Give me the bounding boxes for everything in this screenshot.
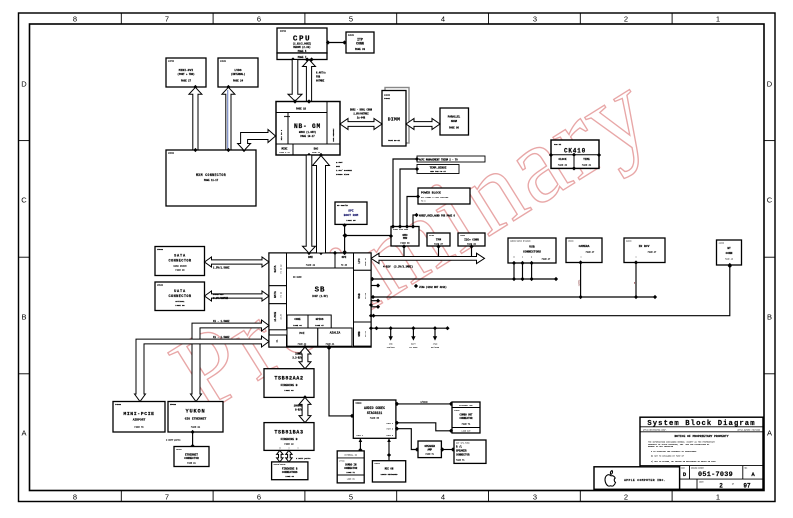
wire CPU to ITP CONN: [326, 40, 347, 44]
svg-text:4: 4: [441, 493, 445, 502]
svg-text:MIC ON: MIC ON: [385, 468, 394, 471]
svg-text:J8500: J8500: [168, 152, 175, 155]
svg-text:PAGE 30: PAGE 30: [175, 269, 185, 272]
svg-text:A4101: A4101: [348, 34, 355, 37]
svg-text:CLOCK: CLOCK: [558, 158, 566, 161]
svg-text:J5000: J5000: [157, 248, 164, 251]
svg-text:I2C+ CONN: I2C+ CONN: [464, 239, 479, 242]
svg-text:DMI: DMI: [308, 256, 313, 259]
stub SMB device 2: [409, 326, 418, 349]
bus arrow NB FSB up to CPU: [303, 60, 327, 102]
svg-text:1.5V/1.5GHZ: 1.5V/1.5GHZ: [213, 266, 230, 269]
svg-text:MXM CONNECTOR: MXM CONNECTOR: [196, 173, 226, 177]
svg-text:PG 35: PG 35: [341, 264, 348, 267]
svg-text:SPI: SPI: [342, 256, 347, 259]
svg-text:J4101: J4101: [220, 60, 227, 63]
svg-text:PAGE 71: PAGE 71: [346, 471, 355, 474]
svg-text:1.5V/ 333MHZ: 1.5V/ 333MHZ: [336, 169, 352, 172]
svg-text:8-B2V: 8-B2V: [295, 409, 303, 412]
svg-text:PAGE 44: PAGE 44: [285, 475, 294, 478]
svg-text:A TO ACCEPTED THE CONTRACT OF: A TO ACCEPTED THE CONTRACT OF CONDITIONS: [651, 450, 697, 453]
svg-text:PAGE 9 10: PAGE 9 10: [279, 151, 290, 154]
svg-text:LVDS: LVDS: [234, 69, 241, 72]
svg-text:4-B2V (3.3V/3.3MHZ): 4-B2V (3.3V/3.3MHZ): [383, 266, 414, 269]
svg-text:SMB: SMB: [358, 331, 361, 336]
svg-text:B: B: [21, 313, 26, 322]
wire YUKON to ETHERNET CONNECTOR: [166, 432, 195, 448]
block FIREWIRE B CONNECTORS: [272, 462, 308, 480]
svg-text:PAGE 55: PAGE 55: [370, 417, 380, 420]
wire AUDIO CODEC to EXTERNAL AMP: [395, 401, 453, 406]
block SMC U4900: [389, 224, 419, 246]
block ETHERNET CONNECTOR J5400: [174, 447, 209, 467]
svg-text:POWER BLOCK: POWER BLOCK: [421, 192, 441, 195]
svg-text:CONNECTOR: CONNECTOR: [168, 295, 191, 299]
svg-text:PAGE 27: PAGE 27: [181, 80, 192, 83]
wire SB AZALIA to AUDIO CODEC: [327, 346, 354, 418]
svg-text:J4900: J4900: [719, 241, 724, 244]
svg-text:1.8V/667MHZ: 1.8V/667MHZ: [353, 113, 369, 116]
svg-text:APPLE_RESTRICTED_CONF.: APPLE_RESTRICTED_CONF.: [643, 429, 667, 432]
svg-text:5: 5: [349, 15, 353, 24]
block MXM CONNECTOR J8500: [166, 148, 256, 206]
bus arrow SB up to NB DAC: [313, 156, 353, 254]
svg-text:A: A: [767, 429, 772, 438]
stub SMB device 1: [387, 326, 396, 349]
svg-text:AUDIO CODEC: AUDIO CODEC: [364, 406, 385, 410]
svg-text:A9000: A9000: [374, 462, 379, 465]
block SATA CONNECTOR J5000: [155, 247, 205, 276]
svg-text:J4700: J4700: [168, 60, 175, 63]
svg-text:J8300: J8300: [568, 240, 573, 242]
svg-text:C: C: [21, 196, 27, 205]
bus arrow UATA to SB: [205, 291, 270, 301]
svg-text:TPM: TPM: [436, 239, 441, 242]
svg-text:OF: OF: [732, 484, 734, 486]
svg-text:SPI: SPI: [348, 210, 354, 213]
svg-text:x1-PCIE: x1-PCIE: [274, 311, 277, 321]
block LVDS connector J4101: [218, 58, 258, 89]
svg-text:PAGE 42: PAGE 42: [306, 264, 316, 267]
svg-text:STAC9221: STAC9221: [367, 411, 382, 415]
svg-text:B) NOT TO DIVULGED BY PART OF: B) NOT TO DIVULGED BY PART OF: [651, 455, 685, 458]
svg-text:R /L: R /L: [456, 445, 463, 448]
svg-text:BT: BT: [727, 247, 731, 250]
wire SMB bus from SB: [371, 326, 450, 330]
wire AUDIO PORT A to COMBO OUT: [395, 421, 453, 433]
block DIMM J4000: [382, 88, 409, 147]
svg-text:GMCH (1.05V): GMCH (1.05V): [299, 131, 317, 134]
svg-text:LINE IN: LINE IN: [347, 478, 356, 481]
svg-text:AZALIA: AZALIA: [330, 331, 341, 334]
block ITP CONN A4101: [346, 32, 374, 53]
bus arrow SB PCIE x1 to MINI-PCIE: [135, 336, 270, 402]
svg-text:PAGE 71: PAGE 71: [462, 423, 471, 426]
bus arrows TSB81BA3 to FIREWIRE connectors: [277, 450, 312, 462]
svg-text:MEROM (2.33): MEROM (2.33): [293, 46, 311, 49]
svg-text:A2/4200: A2/4200: [431, 346, 440, 349]
svg-text:PAGE 47: PAGE 47: [542, 258, 551, 261]
wire SMC to LPC bus: [402, 244, 406, 260]
svg-text:DDR MEMORY: DDR MEMORY: [332, 128, 335, 142]
svg-text:CONNECTOR: CONNECTOR: [344, 467, 357, 470]
svg-text:1: 1: [716, 493, 720, 502]
block NB-GM northbridge U5000: [276, 99, 340, 157]
svg-text:CONNECTOR: CONNECTOR: [456, 453, 470, 456]
svg-text:PORT C: PORT C: [357, 435, 364, 437]
bus arrow DIMM to PARALLEL SRAM: [406, 119, 440, 130]
svg-text:97: 97: [743, 483, 751, 490]
svg-text:USB: USB: [529, 246, 535, 249]
label JTAG net: [414, 284, 447, 289]
svg-text:2x-64B: 2x-64B: [357, 117, 366, 120]
block PARALLEL SRAM: [440, 108, 469, 135]
svg-text:PAGE 24: PAGE 24: [233, 80, 244, 83]
svg-text:SRAM: SRAM: [451, 120, 458, 123]
svg-text:(INTERNAL): (INTERNAL): [231, 73, 246, 76]
wire BT CONN to SB USB: [371, 264, 732, 318]
svg-text:J5400: J5400: [176, 448, 183, 451]
svg-text:LINE OUT: LINE OUT: [461, 430, 471, 433]
svg-text:(PORT + TBD): (PORT + TBD): [177, 73, 195, 76]
wire SPI BOOT ROM to SB SPI: [343, 223, 347, 254]
block CPU U4700: [277, 28, 327, 62]
svg-text:8: 8: [73, 15, 77, 24]
svg-text:SPEAKER: SPEAKER: [456, 449, 467, 452]
svg-text:051-7039: 051-7039: [698, 471, 733, 479]
svg-text:66MB/SEC: 66MB/SEC: [213, 293, 224, 296]
svg-text:SB: SB: [315, 287, 326, 295]
svg-text:CONNECTOR: CONNECTOR: [168, 260, 191, 264]
svg-text:FIREWIRE B: FIREWIRE B: [281, 384, 298, 387]
svg-text:TSB81BA3: TSB81BA3: [274, 429, 303, 435]
svg-text:6.4GT/s: 6.4GT/s: [316, 72, 326, 75]
svg-text:PAGE 5: PAGE 5: [298, 50, 307, 53]
svg-text:CONN: CONN: [726, 252, 733, 255]
bus arrow LPC from SB: [371, 253, 485, 268]
label box POWER BLOCK: [407, 188, 470, 227]
svg-text:400 Hz: 400 Hz: [554, 143, 562, 146]
svg-text:GPIOS: GPIOS: [316, 318, 324, 321]
svg-text:PG 30 x2: PG 30 x2: [280, 264, 283, 274]
wire AUDIO PORT D to MIC: [387, 438, 391, 460]
svg-text:U4750: U4750: [429, 234, 434, 237]
svg-text:DDR2 - DUAL CHAN: DDR2 - DUAL CHAN: [350, 109, 373, 112]
block TSB82AA2 firewire U2100: [264, 369, 314, 400]
svg-text:8: 8: [73, 493, 77, 502]
svg-text:DIMM: DIMM: [388, 116, 400, 122]
block MINI-PCIE AIRPORT J4500: [113, 402, 165, 433]
svg-text:6: 6: [257, 15, 261, 24]
svg-text:LOGIC KEYBOARD: LOGIC KEYBOARD: [381, 473, 399, 476]
wire USB bus 2 from SB: [371, 295, 657, 299]
svg-text:2: 2: [624, 15, 628, 24]
svg-text:APPLE COMPUTER INC.: APPLE COMPUTER INC.: [624, 479, 666, 482]
bus arrow CPU FSB down to NB: [288, 60, 302, 102]
label box ACPI MANAGEMENT THERM: [393, 156, 485, 227]
svg-text:AIRPORT: AIRPORT: [133, 419, 146, 422]
block TPM U4700: [427, 233, 450, 246]
wire IR RCV to USB bus: [634, 263, 638, 300]
svg-text:UATA: UATA: [174, 290, 186, 294]
svg-text:4: 4: [441, 15, 445, 24]
svg-text:PAGE 71: PAGE 71: [425, 453, 434, 456]
svg-text:AVREF,AVID,AGND FOR PAGE 6: AVREF,AVID,AGND FOR PAGE 6: [419, 214, 455, 217]
svg-text:3.3-B2V: 3.3-B2V: [292, 357, 302, 360]
svg-text:PAGE 44: PAGE 44: [293, 324, 302, 327]
svg-text:J7800: J7800: [454, 410, 459, 412]
svg-text:X1 - 1.5GHZ: X1 - 1.5GHZ: [213, 336, 230, 339]
svg-text:SATA: SATA: [174, 255, 186, 259]
wire SPEAKER AMP to SPEAKER CONNECTOR: [440, 447, 455, 451]
svg-text:D: D: [21, 80, 27, 89]
bus arrow SB to TSB82AA2: [292, 347, 311, 369]
block BT CONN: [717, 240, 742, 267]
svg-text:PAGE 31: PAGE 31: [582, 164, 592, 167]
svg-text:CONNECTOR: CONNECTOR: [460, 417, 473, 420]
wires USB CONNECTORS to USB bus: [512, 263, 534, 281]
svg-text:1: 1: [716, 15, 720, 24]
svg-text:PAGE 96: PAGE 96: [449, 127, 459, 130]
svg-text:REV.: REV.: [745, 467, 749, 469]
bus arrow NB to DIMM DDR2: [340, 109, 382, 130]
svg-text:7: 7: [165, 493, 169, 502]
svg-text:800MB/400MB: 800MB/400MB: [274, 463, 287, 466]
svg-text:PAGE 30: PAGE 30: [175, 304, 185, 307]
bus arrow NB DMI down to SB: [303, 155, 316, 253]
svg-text:x BUTT ports: x BUTT ports: [166, 439, 181, 442]
svg-text:PAGE 20-21: PAGE 20-21: [388, 139, 401, 142]
svg-text:PG 30: PG 30: [280, 291, 283, 298]
svg-text:3: 3: [533, 15, 537, 24]
svg-text:7: 7: [165, 15, 169, 24]
svg-text:33MHZ: 33MHZ: [295, 353, 303, 356]
svg-text:J7700: J7700: [339, 461, 344, 463]
svg-text:PARALLEL: PARALLEL: [448, 116, 461, 119]
wire AUDIO PORT B to SPEAKER AMP: [395, 427, 419, 452]
svg-text:CLK/DTA: CLK/DTA: [387, 346, 396, 349]
svg-text:PG 28: PG 28: [364, 292, 367, 299]
svg-text:GIG ETHERNET: GIG ETHERNET: [185, 418, 207, 421]
svg-text:PG 4300: PG 4300: [409, 346, 418, 349]
block MIC on keyboard: [372, 461, 405, 482]
svg-text:ACPI MANAGEMENT THERM 2 - TO: ACPI MANAGEMENT THERM 2 - TO: [419, 158, 458, 161]
apple logo box: [594, 467, 680, 490]
bus arrow SB PCIE x1 to YUKON: [191, 320, 270, 402]
svg-text:MINI-DVI: MINI-DVI: [179, 69, 194, 72]
stub SMB device 3: [431, 326, 440, 349]
svg-text:3: 3: [533, 493, 537, 502]
label box TEMP SENSE: [400, 165, 459, 227]
block UATA CONNECTOR J5100: [155, 282, 205, 311]
svg-text:2: 2: [719, 483, 723, 490]
svg-text:YUKON: YUKON: [186, 408, 206, 414]
svg-text:J4600: J4600: [115, 403, 122, 406]
svg-text:SHEET: SHEET: [699, 481, 704, 483]
svg-text:2: 2: [624, 493, 628, 502]
svg-text:ICH7 (1.5V): ICH7 (1.5V): [312, 295, 328, 298]
block USB CONNECTORS J4500: [508, 238, 556, 265]
svg-text:PAGE 46: PAGE 46: [725, 258, 734, 261]
svg-text:PAGE 21: PAGE 21: [187, 462, 196, 465]
svg-text:UATA: UATA: [274, 291, 277, 298]
svg-text:AND FAN PG 37: AND FAN PG 37: [430, 170, 446, 173]
svg-text:TIME: TIME: [583, 158, 590, 161]
svg-text:PAGE 18: PAGE 18: [296, 108, 306, 111]
svg-text:AMP: AMP: [427, 449, 432, 452]
svg-text:CONN: CONN: [356, 42, 364, 46]
stub pins SB USB right edge: [371, 283, 380, 309]
svg-text:U4700: U4700: [280, 30, 287, 33]
svg-text:PAGE 71: PAGE 71: [456, 458, 465, 461]
block AUDIO CODEC STAC9221 U6000: [353, 400, 396, 438]
svg-text:x4000 x100: x4000 x100: [336, 173, 350, 176]
wire TPM to LPC bus: [436, 244, 440, 260]
svg-text:TSB82AA2: TSB82AA2: [274, 375, 303, 381]
svg-text:IR RCV: IR RCV: [639, 245, 650, 248]
block SPEAKER AMP: [418, 441, 441, 458]
wire I2C+ CONN to LPC bus: [469, 244, 473, 260]
svg-text:5: 5: [349, 493, 353, 502]
svg-text:U6000: U6000: [356, 402, 363, 405]
label AVREF AVID AGND: [413, 213, 455, 227]
svg-text:PAGE 43: PAGE 43: [284, 389, 294, 392]
svg-text:PAGE 23: PAGE 23: [312, 151, 321, 154]
svg-text:PAGE 10-17: PAGE 10-17: [300, 135, 315, 138]
svg-text:CORE: CORE: [294, 318, 301, 321]
svg-text:DMI: DMI: [336, 165, 341, 168]
svg-text:PAGE 47: PAGE 47: [648, 251, 657, 254]
svg-text:SD 400/Hx: SD 400/Hx: [337, 204, 349, 207]
svg-text:AVREF AVID AGND: AVREF AVID AGND: [393, 228, 408, 231]
svg-text:PORT A: PORT A: [387, 422, 394, 425]
block IR RCV: [624, 238, 665, 265]
svg-text:667MHZ: 667MHZ: [316, 80, 325, 83]
svg-text:x BUTT ports: x BUTT ports: [296, 457, 311, 460]
bus arrow MXM to MINI-DVI: [189, 87, 202, 150]
svg-text:26-TM: 26-TM: [280, 313, 283, 320]
block SPI BOOT ROM: [335, 202, 367, 224]
svg-text:X1 - 1.5GHZ: X1 - 1.5GHZ: [213, 320, 230, 323]
svg-text:J4001: J4001: [384, 97, 391, 100]
svg-text:NB- GM: NB- GM: [294, 123, 321, 130]
svg-text:U5400: U5400: [170, 403, 177, 406]
bus arrow TSB82AA2 to TSB81BA3: [294, 397, 311, 422]
svg-text:U5000: U5000: [284, 115, 291, 118]
bus arrow MXM to LVDS: [222, 87, 235, 150]
svg-text:NO NAME: NO NAME: [293, 276, 302, 279]
svg-text:FSB: FSB: [316, 76, 321, 79]
svg-text:NOTICE OF PROPRIETARY PROPERTY: NOTICE OF PROPRIETARY PROPERTY: [674, 435, 728, 438]
svg-text:EXTERNAL IN: EXTERNAL IN: [344, 454, 357, 457]
svg-text:CONNECTORS: CONNECTORS: [282, 471, 298, 474]
svg-text:PAGE 33: PAGE 33: [355, 48, 366, 51]
svg-text:CAMERA: CAMERA: [579, 245, 590, 248]
svg-text:PAGE 47: PAGE 47: [586, 251, 595, 254]
svg-text:USB: USB: [358, 293, 361, 298]
svg-text:CONNECTORS: CONNECTORS: [523, 251, 541, 254]
block SB southbridge U3900: [269, 251, 373, 349]
svg-text:PAGE 58: PAGE 58: [400, 242, 410, 245]
svg-text:PCI: PCI: [299, 332, 304, 335]
block CAMERA: [566, 238, 602, 265]
block MINI-DVI connector J4700: [166, 58, 206, 89]
svg-text:A: A: [21, 429, 26, 438]
svg-text:LPC: LPC: [358, 258, 361, 263]
svg-text:D: D: [767, 80, 773, 89]
svg-text:PAGE 47: PAGE 47: [315, 324, 324, 327]
svg-text:FIREWIRE B: FIREWIRE B: [281, 438, 298, 441]
svg-text:J4500/J4510 B/J4520: J4500/J4510 B/J4520: [510, 239, 531, 242]
svg-text:x/xxxx: x/xxxx: [420, 401, 428, 404]
svg-text:PAGE 72: PAGE 72: [134, 426, 144, 429]
svg-text:PORT B: PORT B: [387, 429, 394, 431]
svg-text:3.3V/33MHZ: 3.3V/33MHZ: [213, 297, 229, 300]
block TSB81BA3 firewire U2200: [264, 423, 314, 451]
svg-text:PAGE 43: PAGE 43: [284, 443, 294, 446]
svg-text:SATA: SATA: [274, 265, 277, 272]
block COMBO IN CONNECTOR J7700: [337, 451, 364, 483]
block YUKON GIG ETHERNET U5400: [168, 402, 223, 435]
svg-text:J5100: J5100: [157, 284, 164, 287]
svg-text:HEREOF IS NOT TRANSFER: HEREOF IS NOT TRANSFER: [648, 445, 674, 448]
svg-text:INT SPK_PWRx: INT SPK_PWRx: [456, 441, 470, 444]
svg-text:PAGE 21: PAGE 21: [191, 426, 201, 429]
svg-text:J4800: J4800: [460, 234, 465, 237]
svg-text:x16 PG 9: x16 PG 9: [280, 129, 283, 140]
svg-text:HARD DRIVE: HARD DRIVE: [173, 265, 187, 268]
block INT SPEAKER CONNECTOR: [454, 440, 486, 463]
svg-text:CK410: CK410: [564, 147, 586, 154]
svg-text:CAMERA: CAMERA: [578, 279, 581, 286]
svg-text:APPLE_NATURE /05/2006: APPLE_NATURE /05/2006: [737, 429, 760, 432]
wire AUDIO PORT C to COMBO IN: [358, 438, 362, 452]
title block: [640, 417, 763, 489]
svg-text:PAGE 11-17: PAGE 11-17: [204, 179, 219, 182]
svg-text:BOOT ROM: BOOT ROM: [344, 214, 359, 217]
wire USB bus from SB: [370, 277, 558, 281]
svg-text:PAGE 41: PAGE 41: [326, 342, 335, 345]
svg-text:C: C: [767, 196, 773, 205]
block CK410 clock: [549, 140, 601, 171]
block I2C+ CONN: [458, 233, 485, 246]
svg-text:PAGE 40: PAGE 40: [298, 342, 307, 345]
svg-text:U4600: U4600: [626, 239, 631, 242]
svg-text:1600MB: 1600MB: [294, 405, 303, 408]
svg-text:EXTERNAL AMP: EXTERNAL AMP: [459, 404, 473, 407]
svg-text:PAGE 37: PAGE 37: [364, 257, 367, 266]
block COMBO OUT CONNECTOR J7800: [452, 402, 480, 433]
svg-text:6: 6: [257, 493, 261, 502]
svg-text:B: B: [767, 313, 772, 322]
wire SMC to LPC SPI node: [343, 233, 391, 237]
bus arrow SATA to SB: [205, 257, 270, 269]
bus arrow MXM to NB PCIE x16: [238, 130, 276, 151]
svg-text:PG 37: PG 37: [364, 330, 367, 337]
svg-text:C) NOT TO EXTEND, BE COPIED OR: C) NOT TO EXTEND, BE COPIED OR REPRINTED…: [651, 460, 717, 463]
svg-text:MINI-PCIE: MINI-PCIE: [123, 411, 154, 417]
svg-text:PAGE 7: PAGE 7: [298, 56, 307, 59]
svg-text:SIZE: SIZE: [681, 467, 685, 469]
svg-text:PMU: PMU: [403, 237, 408, 240]
svg-text:PAGE 36: PAGE 36: [558, 164, 568, 167]
svg-text:2.5GT: 2.5GT: [336, 161, 343, 164]
svg-text:PAGE 35: PAGE 35: [346, 219, 356, 222]
svg-text:OPTICAL: OPTICAL: [175, 300, 185, 303]
wire CAMERA to USB bus: [578, 263, 583, 300]
svg-text:CONNECTOR: CONNECTOR: [184, 457, 199, 460]
svg-text:PORT D: PORT D: [387, 435, 394, 437]
